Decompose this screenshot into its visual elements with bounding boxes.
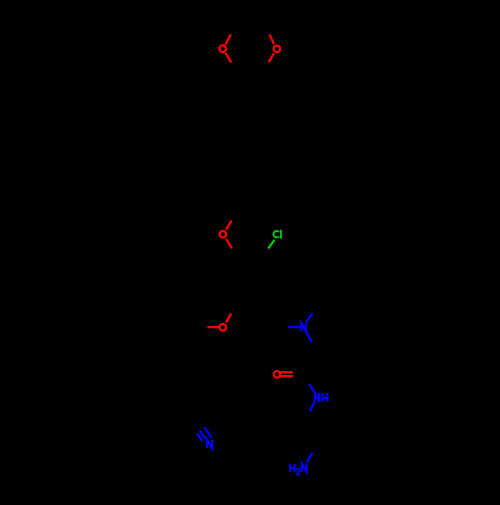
- wire N1 to CH2 (down-right): [306, 332, 312, 343]
- node O2 dioxine oxygen top-right: [274, 46, 281, 53]
- wire O2 to ring C (down-left): [269, 53, 274, 62]
- wire N1 to benzyl CH2 (left): [288, 326, 300, 328]
- wire O4 to ring C (up-right): [226, 314, 231, 323]
- wire O3 to ring C (down-right): [226, 239, 232, 249]
- wire O1 to CH2 (up-right): [225, 34, 231, 44]
- node O4 methoxy oxygen: [220, 324, 227, 331]
- wire O4 to methyl C (left): [207, 326, 219, 328]
- node O3 aryl ether oxygen mid-left: [220, 231, 227, 238]
- node H2N primary amine label: [290, 463, 307, 474]
- node N1 tertiary amine nitrogen: [301, 323, 306, 331]
- wire N1 to methyl (up-right): [306, 313, 312, 322]
- wire NH to CH2 (down-left): [310, 402, 315, 412]
- node O5 carbonyl oxygen: [274, 371, 281, 378]
- wire O3 to chain C (up-right): [226, 221, 232, 230]
- wire O1 to ring C (down-right): [226, 53, 232, 63]
- wire C=O double bond upper red half: [281, 371, 293, 373]
- wire nitrile triple bond line 2: [200, 431, 206, 439]
- wire H2N to CH (up-right): [307, 453, 313, 463]
- wire Cl to ring C (down-left): [268, 240, 274, 249]
- wire O2 to CH2 (up-left): [269, 35, 274, 45]
- wire nitrile triple bond line 1: [197, 433, 202, 441]
- wire nitrile triple bond line 3: [204, 428, 211, 438]
- wire C=O double bond lower red half: [281, 375, 293, 377]
- wire carbonyl C to amide N: [309, 384, 315, 393]
- node O1 dioxine oxygen top-left: [219, 45, 226, 52]
- node NH amide label: [315, 393, 327, 402]
- node N2 nitrile nitrogen label: [207, 440, 212, 448]
- node Cl chlorine label: [273, 230, 280, 239]
